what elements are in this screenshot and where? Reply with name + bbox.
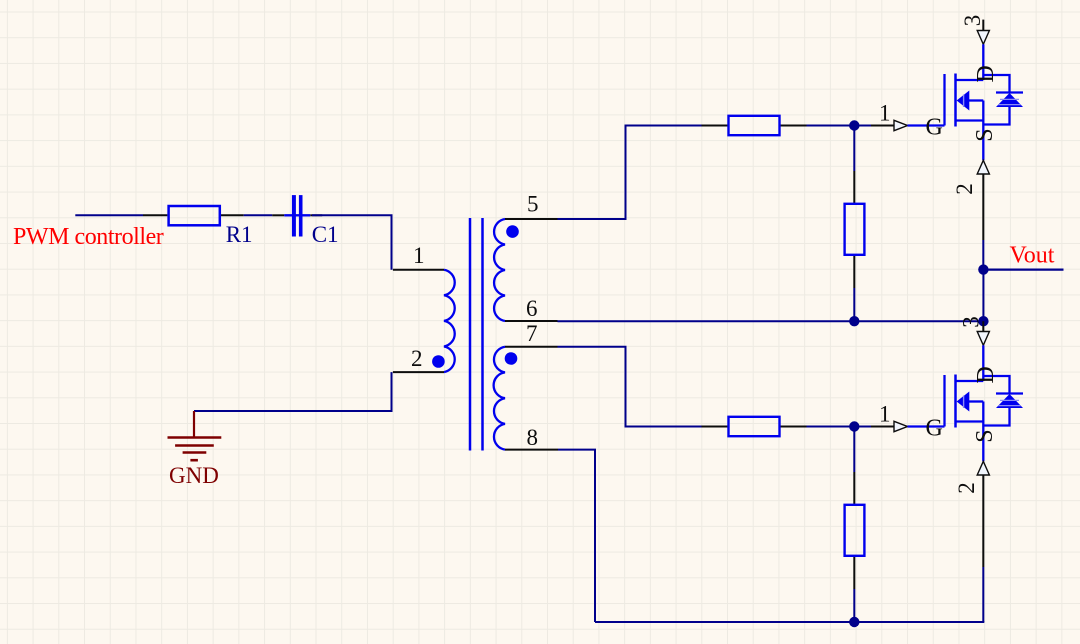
MOSFET Q1 drain stub (channel) xyxy=(956,79,984,81)
MOSFET Q2 channel bar xyxy=(954,375,957,428)
upper MOSFET pin 1 lead xyxy=(871,125,894,127)
transformer pin 5 xyxy=(505,218,558,220)
junction: upper gate node xyxy=(849,120,859,130)
junction: lower gate node xyxy=(849,421,859,431)
MOSFET Q1 channel bar xyxy=(954,74,957,127)
wire: pin 2 to GND xyxy=(194,372,392,411)
wire: gate node to pulldown R xyxy=(853,126,855,172)
secondary 5-6 polarity dot xyxy=(506,225,519,238)
capacitor C1 xyxy=(272,214,284,216)
MOSFET Q2 gate lead xyxy=(908,425,945,427)
lower pin 1 arrow xyxy=(894,421,908,431)
MOSFET Q1 pin 3 arrow xyxy=(977,31,989,45)
wire: pulldown R to rail xyxy=(853,256,855,288)
MOSFET Q2 source lead xyxy=(982,402,984,462)
resistor lower gate xyxy=(702,426,728,428)
secondary winding 5-6 xyxy=(494,219,505,321)
MOSFET Q1 drain stub xyxy=(982,20,984,31)
transformer pin 1 xyxy=(393,269,444,271)
wire: pin 5 to upper gate resistor xyxy=(558,126,702,220)
wire: C1 to transformer pin 1 xyxy=(312,215,392,269)
junction: Vout node xyxy=(978,264,988,274)
resistor upper gate xyxy=(702,125,728,127)
svg-text:S: S xyxy=(972,128,998,141)
MOSFET Q2 gate bar xyxy=(943,375,945,427)
wire: PWM input xyxy=(75,214,143,216)
svg-text:2: 2 xyxy=(954,482,979,494)
wire: bottom rail xyxy=(595,621,984,623)
svg-text:7: 7 xyxy=(526,321,538,346)
junction: rail / MOSFET chain xyxy=(978,316,988,326)
MOSFET Q1 source stub (channel) xyxy=(956,119,984,121)
wire: pin 8 to bottom rail xyxy=(558,450,595,622)
svg-text:5: 5 xyxy=(527,192,539,217)
wire: lower pulldown to bottom rail xyxy=(853,557,855,589)
svg-text:S: S xyxy=(972,429,998,442)
MOSFET Q1 body diode xyxy=(983,75,1009,93)
svg-text:2: 2 xyxy=(411,346,423,371)
svg-text:1: 1 xyxy=(879,402,891,427)
svg-text:R1: R1 xyxy=(226,222,253,247)
junction: rail / pulldown xyxy=(849,316,859,326)
MOSFET Q1 drain lead xyxy=(982,44,984,80)
MOSFET Q2 body diode xyxy=(983,376,1009,394)
wire: R1 to C1 xyxy=(244,214,273,216)
svg-text:3: 3 xyxy=(959,316,984,328)
svg-text:G: G xyxy=(926,415,943,441)
wire: Q1 source to Vout xyxy=(982,174,984,240)
wire: lower gate node to pulldown R xyxy=(853,427,855,473)
wire: pin 6 rail xyxy=(558,320,984,322)
svg-text:6: 6 xyxy=(526,296,538,321)
transformer pin 6 xyxy=(505,320,558,322)
wire: Vout node vertical xyxy=(982,270,984,322)
resistor upper pulldown xyxy=(845,204,865,255)
MOSFET Q2 drain lead xyxy=(982,345,984,381)
upper pin 1 arrow xyxy=(894,120,908,130)
resistor R1 xyxy=(143,214,167,216)
power port GND xyxy=(193,411,195,437)
svg-text:1: 1 xyxy=(879,101,891,126)
MOSFET Q2 drain stub xyxy=(982,321,984,331)
transformer core xyxy=(469,218,472,451)
svg-text:2: 2 xyxy=(952,183,977,195)
transformer pin 2 xyxy=(393,371,444,373)
wire: pin 7 to lower gate resistor xyxy=(558,347,702,427)
MOSFET Q1 bulk arrow xyxy=(969,99,984,101)
MOSFET Q1 pin 2 arrow xyxy=(977,160,989,174)
secondary 7-8 polarity dot xyxy=(505,352,518,365)
MOSFET Q2 source stub (channel) xyxy=(956,420,984,422)
svg-text:8: 8 xyxy=(527,425,539,450)
secondary winding 7-8 xyxy=(494,347,505,450)
lower MOSFET pin 1 lead xyxy=(871,426,894,428)
svg-text:Vout: Vout xyxy=(1010,243,1055,269)
junction: bottom rail / pulldown xyxy=(849,617,859,627)
transformer pin 8 xyxy=(505,449,558,451)
wire: resistor to lower gate node xyxy=(807,426,872,428)
transformer pin 7 xyxy=(505,346,558,348)
MOSFET Q1 gate bar xyxy=(943,74,945,126)
svg-text:3: 3 xyxy=(960,15,985,27)
MOSFET Q1 gate lead xyxy=(908,124,945,126)
MOSFET Q2 drain stub (channel) xyxy=(956,380,984,382)
svg-text:1: 1 xyxy=(413,243,425,268)
svg-text:D: D xyxy=(973,65,999,82)
MOSFET Q2 bulk arrow xyxy=(969,400,984,402)
MOSFET Q1 source lead xyxy=(982,101,984,161)
resistor lower pulldown xyxy=(845,505,865,556)
wire: resistor to gate node xyxy=(807,125,872,127)
MOSFET Q2 pin 3 arrow xyxy=(977,332,989,346)
primary polarity dot xyxy=(432,355,445,368)
wire: Vout output xyxy=(983,269,1063,271)
svg-text:C1: C1 xyxy=(312,222,339,247)
MOSFET Q2 pin 2 arrow xyxy=(977,461,989,475)
svg-text:G: G xyxy=(926,114,943,140)
svg-text:PWM controller: PWM controller xyxy=(13,224,164,250)
transformer primary winding xyxy=(444,270,455,372)
svg-text:D: D xyxy=(973,366,999,383)
svg-text:GND: GND xyxy=(169,463,219,488)
wire: Q2 source to bottom rail xyxy=(982,475,984,567)
